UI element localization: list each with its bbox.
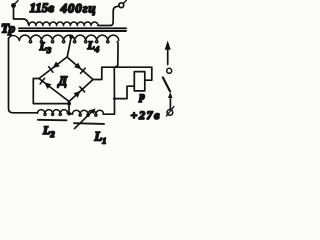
wire L1 to right rail [103,113,114,115]
left rail wire [9,38,38,113]
diode D2 upper-right [74,63,85,74]
wire L2-L1 junction [67,112,72,115]
winding L1 [73,110,104,116]
transformer primary winding [29,22,98,25]
terminal input left (115V) [11,1,18,8]
node: secondary center tap [69,35,73,39]
diode D3 lower-left [40,78,51,89]
relay P coil [134,72,145,91]
core bar of L1 [74,122,104,125]
wire tap to bridge top [67,38,71,57]
wire secondary right end down (right rail) [114,42,118,114]
wire from left terminal to primary [14,7,29,25]
wire primary to right terminal [98,6,119,25]
secondary winding L3+L4 [9,35,119,43]
diode bridge Д: diamond edges [39,57,67,79]
svg-text:Тр: Тр [1,21,16,36]
terminal +27V [166,107,174,117]
adjust arrow through L1 [75,108,96,128]
transformer Tr core [19,28,126,31]
node: bottom center junction [67,112,71,116]
winding L2 [38,110,68,116]
wire bridge left vertex loop [33,79,66,104]
wire bridge right vertex to relay (top) [93,67,152,80]
svg-text:Д: Д [58,74,68,88]
svg-text:400гц: 400гц [60,1,97,16]
wire from +27V terminal with arrowhead [168,92,173,109]
wire bridge bottom to L1/L2 junction [68,102,70,114]
terminal input right (400Hz) [119,0,126,7]
node: bridge bottom junction [67,102,71,106]
wire relay left terminal to right rail [114,86,134,98]
switch contact circle [167,68,172,73]
svg-text:L2: L2 [42,123,55,139]
svg-text:L1: L1 [94,130,107,146]
svg-text:115в: 115в [30,0,55,15]
svg-text:р: р [139,92,145,103]
core bar of L2 [38,119,67,122]
node: rail/relay junction [113,97,116,100]
svg-text:L3: L3 [39,39,52,55]
diode D1 upper-left [49,62,60,73]
diode D4 lower-right [74,87,85,98]
switch blade [163,78,170,92]
svg-text:+27в: +27в [131,108,162,122]
switch arrow up [165,41,171,65]
